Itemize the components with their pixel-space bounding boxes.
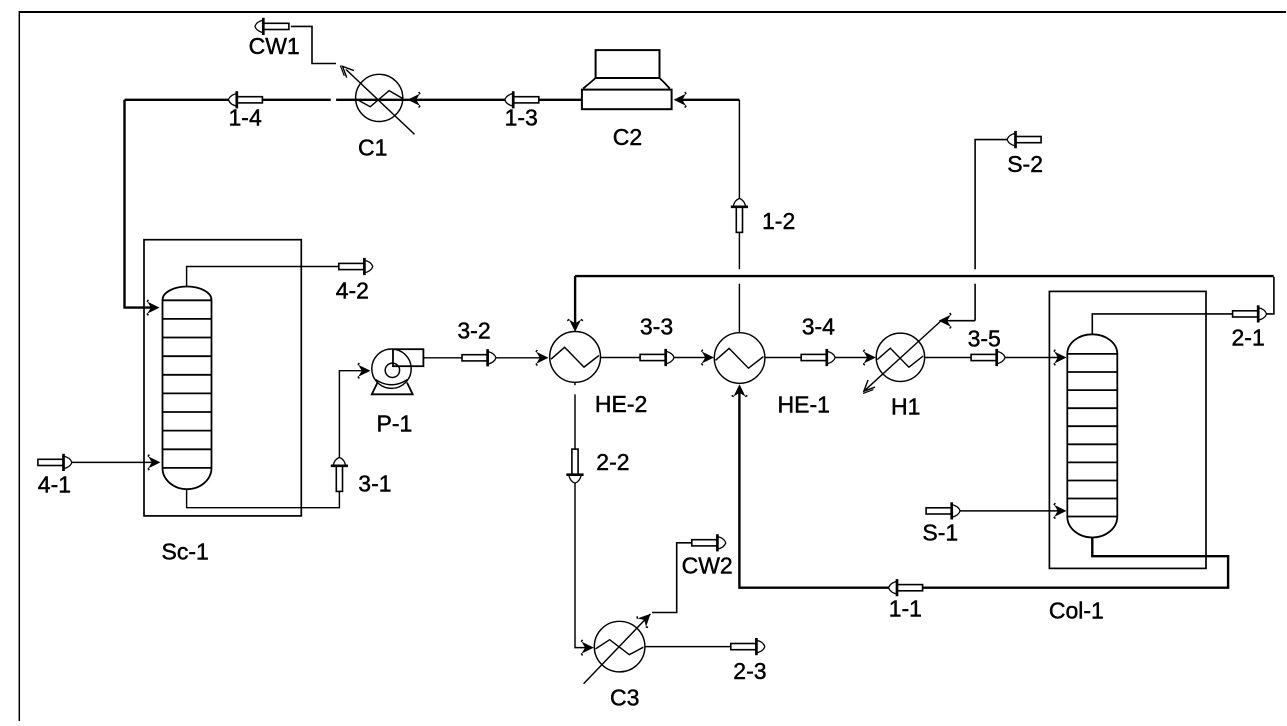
stream arrow 3-2: [462, 349, 496, 366]
stream arrow 1-1: [889, 579, 923, 596]
pump P-1 bowl arc: [376, 380, 408, 385]
svg-text:2-2: 2-2: [596, 449, 629, 475]
page border top: [19, 11, 1286, 13]
stream arrow 1-2: [731, 199, 748, 233]
wire: 1-4 elbow down into Sc-1: [125, 100, 153, 308]
Col-1 vessel bottom weld line: [1067, 516, 1117, 518]
inlet arrow Col-1 feed 3-5: [1054, 350, 1067, 366]
pump P-1 pedestal: [372, 383, 413, 395]
wire: 2-3 outlet from C3: [645, 646, 757, 648]
svg-text:3-5: 3-5: [968, 326, 1001, 352]
svg-text:P-1: P-1: [377, 411, 413, 437]
svg-text:2-3: 2-3: [733, 658, 766, 684]
stream arrow 2-3: [731, 638, 765, 655]
outlet arrow C3 utility diagonal: [636, 608, 656, 628]
stream arrow 2-2: [566, 449, 583, 483]
compressor C2 bottom box: [582, 90, 672, 110]
svg-text:3-2: 3-2: [457, 318, 490, 344]
heater H1 circle: [876, 333, 924, 381]
wire: 4-2 overhead from Sc-1: [187, 267, 365, 287]
column Col-1 outer box: [1049, 291, 1206, 568]
svg-text:1-3: 1-3: [505, 105, 538, 131]
stream arrow 3-3: [640, 349, 674, 366]
pump P-1 inner circle: [385, 363, 399, 377]
wire: pump discharge 3-2 to HE-2: [423, 357, 540, 359]
pump P-1 volute circle: [372, 349, 411, 388]
svg-text:HE-1: HE-1: [778, 392, 830, 418]
heat exchanger C1 circle: [356, 74, 403, 121]
C3 zigzag: [596, 640, 644, 655]
svg-text:CW2: CW2: [682, 553, 733, 579]
wire: bold recycle line y=276.1: [575, 275, 1274, 277]
inlet arrow Col-1 feed S-1: [1054, 503, 1067, 519]
stream arrow S-1: [926, 502, 960, 519]
stream arrow 1-3: [505, 91, 539, 108]
wire: CW2 elbow from C3 diagonal: [652, 543, 692, 613]
svg-text:S-2: S-2: [1007, 151, 1043, 177]
svg-text:4-2: 4-2: [336, 278, 369, 304]
wire: C2 inlet segment from vertical riser: [676, 99, 739, 101]
svg-text:1-2: 1-2: [762, 208, 795, 234]
svg-text:HE-2: HE-2: [595, 391, 647, 417]
wire: recycle drop into HE-2 top: [574, 276, 576, 324]
inlet arrow H1 left: [863, 350, 876, 366]
inlet arrow HE-2 left: [536, 350, 549, 366]
inlet arrow Sc-1 bottom: [148, 455, 161, 471]
wire: C1 utility diagonal: [346, 70, 415, 135]
stream arrow 4-1: [38, 454, 72, 471]
svg-text:C2: C2: [613, 124, 642, 150]
wire: C3 utility diagonal: [584, 614, 651, 684]
wire: main bold line 1-4/1-3 through C1 at y=99.8: [125, 99, 331, 101]
pump P-1 discharge box: [393, 349, 423, 366]
wire: 4-1 feed into Sc-1: [72, 461, 152, 463]
heat exchanger HE-1 circle: [714, 333, 765, 384]
stream arrow 3-1: [331, 458, 348, 492]
stream arrow 3-4: [801, 349, 835, 366]
wire: 3-5 H1 to Col-1: [925, 357, 1058, 359]
scrubber Sc-1 outer box: [144, 240, 301, 516]
inlet arrow HE-1 bottom: [732, 384, 748, 397]
inlet arrow H1 utility top: [939, 313, 952, 329]
Sc-1 vessel bottom weld line: [163, 467, 212, 469]
inlet arrow HE-1 left: [701, 350, 714, 366]
Col-1 vessel shell: [1067, 334, 1117, 537]
wire: CW1 elbow from C1 utility: [291, 26, 336, 63]
svg-text:1-4: 1-4: [229, 105, 262, 131]
wire: Col-1 bottoms 1-1 to HE-1 bottom: [739, 390, 1228, 588]
Sc-1 vessel shell: [163, 287, 212, 490]
cooler C3 circle: [594, 621, 645, 672]
stream arrow 1-4: [229, 91, 263, 108]
heat exchanger HE-2 circle: [550, 332, 601, 383]
svg-text:4-1: 4-1: [38, 472, 71, 498]
inlet arrow C2 right: [674, 92, 687, 108]
svg-text:C3: C3: [610, 685, 639, 711]
wire: S-2 inlet elbow: [975, 140, 1007, 270]
svg-text:3-4: 3-4: [802, 314, 835, 340]
Col-1 vessel top weld line: [1067, 353, 1117, 355]
svg-text:1-1: 1-1: [889, 596, 922, 622]
inlet arrow HE-2 top: [567, 319, 583, 332]
wire: pump suction from Sc-1 bottom via 3-1: [187, 371, 362, 508]
wire: S-1 feed into Col-1: [960, 510, 1058, 512]
wire: vertical riser C2 to HE-1 with 1-2: [738, 100, 740, 269]
inlet arrow P-1: [358, 363, 371, 379]
chevron arrow H1 utility end: [859, 380, 876, 397]
svg-text:C1: C1: [358, 135, 387, 161]
page border left: [18, 11, 20, 721]
inlet arrow C3 left: [581, 640, 594, 656]
inlet arrow C1 right: [408, 92, 421, 108]
wire: 3-4 HE-1 to H1: [765, 357, 868, 359]
inlet arrow Sc-1 top: [147, 300, 160, 316]
compressor C2 top box: [596, 50, 660, 78]
Sc-1 trays: [163, 319, 212, 449]
svg-text:Col-1: Col-1: [1049, 598, 1104, 624]
stream arrow 3-5: [971, 349, 1005, 366]
svg-text:CW1: CW1: [249, 33, 300, 59]
svg-text:3-3: 3-3: [640, 314, 673, 340]
stream arrow 2-1: [1233, 305, 1267, 322]
svg-text:Sc-1: Sc-1: [162, 539, 209, 565]
wire: 3-3 HE-2 to HE-1: [601, 357, 707, 359]
svg-text:3-1: 3-1: [358, 471, 391, 497]
stream arrow CW1: [255, 18, 289, 35]
Sc-1 vessel top weld line: [163, 299, 212, 301]
stream arrow S-2: [1007, 131, 1041, 148]
svg-text:S-1: S-1: [922, 520, 958, 546]
C1 zigzag: [356, 91, 403, 107]
stream arrow 4-2: [339, 258, 373, 275]
wire: HE-2 bottom 2-2 down to C3: [574, 382, 576, 385]
HE-2 zigzag: [551, 347, 599, 367]
HE-1 zigzag: [716, 348, 764, 368]
Col-1 trays: [1067, 372, 1117, 499]
svg-text:2-1: 2-1: [1232, 325, 1265, 351]
stream arrow CW2: [692, 534, 726, 551]
wire: H1 utility diagonal: [864, 321, 941, 391]
chevron arrow CW1 utility end: [337, 61, 354, 78]
H1 zigzag: [877, 348, 923, 367]
compressor C2 flare sides: [583, 78, 670, 89]
svg-text:H1: H1: [891, 394, 920, 420]
wire: Col-1 overhead to 2-1 and recycle riser: [1092, 314, 1258, 334]
